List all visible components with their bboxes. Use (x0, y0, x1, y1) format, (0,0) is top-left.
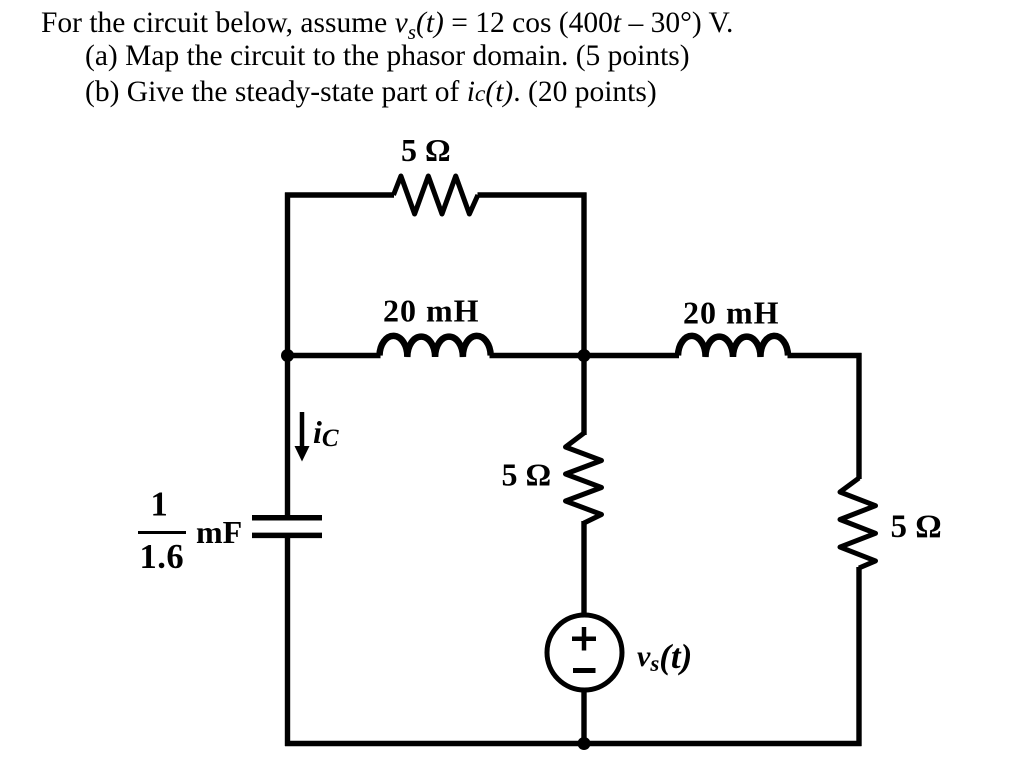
svg-text:5 Ω: 5 Ω (401, 132, 451, 168)
resistor R top 5 ohm (394, 176, 478, 214)
wire right vertical upper (856, 353, 861, 479)
svg-text:20 mH: 20 mH (683, 295, 780, 331)
problem statement text line 2 (85, 42, 690, 72)
svg-text:5 Ω: 5 Ω (891, 509, 942, 545)
svg-text:iC: iC (313, 414, 339, 452)
svg-text:vs(t): vs(t) (637, 637, 692, 676)
wire right vertical lower (856, 567, 861, 746)
wire middle row center (490, 353, 680, 358)
wire middle vertical below source (581, 689, 586, 744)
junction node dot bottom (578, 737, 591, 750)
problem statement text line 1 (41, 9, 733, 43)
capacitor 1/1.6 mF plates (252, 518, 322, 536)
svg-text:1: 1 (151, 486, 168, 524)
voltage source minus sign (573, 668, 596, 673)
svg-text:1.6: 1.6 (140, 538, 185, 576)
problem statement text line 3 (85, 78, 657, 108)
wire top-right horizontal (478, 192, 587, 197)
svg-text:20 mH: 20 mH (383, 293, 480, 329)
wire top-left horizontal (285, 192, 394, 197)
voltage source vs circle (547, 615, 622, 690)
junction node dot middle (578, 349, 591, 362)
voltage source plus sign (572, 627, 596, 651)
current arrow ic (295, 412, 310, 462)
wire middle row left (288, 353, 381, 358)
wire left vertical lower (285, 538, 290, 746)
resistor right 5 ohm (840, 478, 876, 568)
wire middle vertical upper (581, 193, 586, 436)
svg-text:mF: mF (196, 514, 242, 550)
resistor middle 5 ohm (566, 433, 602, 523)
junction node dot left (281, 349, 294, 362)
inductor right 20 mH (678, 336, 788, 357)
svg-text:5 Ω: 5 Ω (502, 457, 552, 493)
inductor left 20 mH (380, 336, 491, 357)
wire left vertical upper (285, 193, 290, 516)
wire middle vertical between resistor and source (581, 521, 586, 616)
wire middle row right (788, 353, 862, 358)
wire bottom horizontal (285, 741, 862, 746)
